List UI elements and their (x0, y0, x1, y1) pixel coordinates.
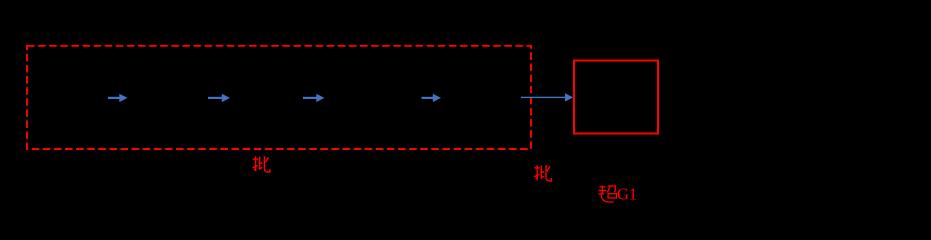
solid G1 box (574, 61, 658, 134)
arrow 1 (108, 94, 128, 102)
label 批 (under dashed box) (252, 156, 269, 172)
arrow 4 (422, 94, 442, 102)
dashed batch box (27, 46, 531, 149)
label 超 (glyph) (599, 186, 617, 203)
svg-text:G1: G1 (617, 185, 637, 204)
label 批 (right of dashed box) (534, 165, 551, 181)
connector arrow to G1 box (521, 93, 573, 101)
arrow 3 (303, 94, 325, 102)
arrow 2 (208, 94, 230, 102)
